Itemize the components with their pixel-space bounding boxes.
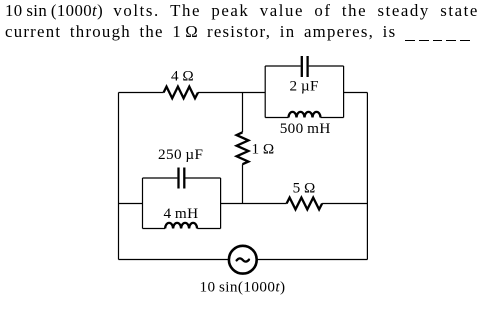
svg-text:4 mH: 4 mH <box>163 205 198 222</box>
svg-text:10 sin(1000t): 10 sin(1000t) <box>200 279 286 296</box>
svg-text:1 Ω: 1 Ω <box>252 141 275 158</box>
svg-text:4 Ω: 4 Ω <box>171 68 194 85</box>
svg-text:250 µF: 250 µF <box>158 146 203 163</box>
svg-text:5 Ω: 5 Ω <box>293 180 316 197</box>
svg-text:500 mH: 500 mH <box>280 120 331 137</box>
svg-text:2 µF: 2 µF <box>289 78 318 95</box>
